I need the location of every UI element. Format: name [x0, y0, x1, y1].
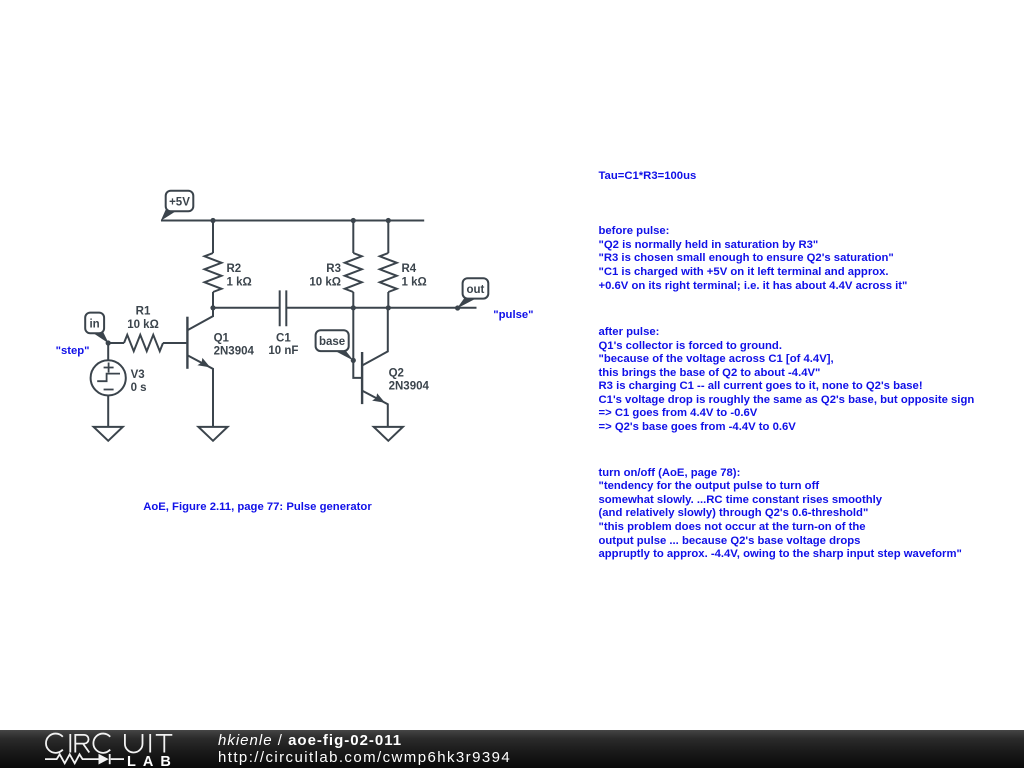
wire R2 bottom lead to collector node — [212, 292, 214, 308]
svg-text:Q1: Q1 — [214, 332, 230, 344]
svg-text:Q2: Q2 — [389, 367, 404, 379]
caption — [143, 501, 372, 515]
flag +5V — [161, 191, 194, 221]
node name "pulse" — [493, 309, 533, 323]
svg-text:R1: R1 — [136, 305, 151, 317]
transistor Q2 2N3904 — [362, 308, 429, 427]
svg-text:V3: V3 — [131, 369, 145, 381]
node name "step" — [56, 345, 90, 359]
junction dot R2 top — [210, 218, 215, 223]
resistor R4 1k — [380, 253, 397, 292]
svg-text:0 s: 0 s — [131, 382, 147, 394]
wire collector node row left of C1 — [213, 307, 280, 309]
wire R3 top lead — [352, 221, 354, 254]
wire R2 top lead — [212, 221, 214, 254]
svg-text:+5V: +5V — [169, 197, 190, 209]
wire in node down to V3 — [107, 343, 109, 361]
bottom bar — [0, 730, 1024, 768]
svg-text:R2: R2 — [227, 263, 242, 275]
junction dot R3 bottom — [351, 305, 356, 310]
svg-text:1 kΩ: 1 kΩ — [227, 277, 252, 289]
voltage source V3 step — [91, 360, 147, 395]
svg-text:in: in — [89, 319, 99, 331]
capacitor C1 10nF — [280, 290, 287, 326]
junction dot base node — [351, 358, 356, 363]
wire V3 bottom to ground — [107, 395, 109, 427]
junction dot in node — [106, 340, 111, 345]
wire R3 bottom lead down to Q2 base — [353, 292, 361, 378]
annotation turn on/off — [599, 467, 962, 562]
logo resistor-diode doodle — [45, 754, 124, 764]
junction dot R4 top — [386, 218, 391, 223]
ground under Q1 emitter — [198, 427, 227, 441]
logo CIRCUIT letters — [46, 733, 172, 752]
resistor R2 1k — [205, 253, 222, 292]
bar text line 2 — [218, 749, 511, 766]
transistor Q1 2N3904 — [187, 308, 254, 427]
wire R4 top lead — [387, 221, 389, 254]
annotation Tau — [599, 170, 697, 184]
svg-text:2N3904: 2N3904 — [214, 345, 255, 357]
wire R4 bottom lead — [387, 292, 389, 308]
svg-text:10 nF: 10 nF — [268, 345, 298, 357]
flag out — [457, 278, 488, 308]
wire in node to R1 — [108, 342, 124, 344]
flag base — [316, 330, 354, 361]
junction dot out node — [455, 305, 460, 310]
resistor R3 10k — [345, 253, 362, 292]
svg-text:base: base — [319, 336, 345, 348]
svg-text:R4: R4 — [402, 263, 417, 275]
svg-text:out: out — [466, 284, 484, 296]
wire top +5V rail — [161, 220, 424, 222]
junction dot collector node — [210, 305, 215, 310]
svg-text:C1: C1 — [276, 332, 291, 344]
ground under V3 — [94, 427, 123, 441]
flag in — [85, 313, 109, 344]
junction dot R3 top — [351, 218, 356, 223]
svg-text:10 kΩ: 10 kΩ — [309, 277, 341, 289]
bar text line 1 — [218, 732, 402, 749]
svg-text:R3: R3 — [326, 263, 341, 275]
resistor R1 10k horizontal — [124, 335, 163, 351]
ground under Q2 emitter — [374, 427, 403, 441]
svg-text:LAB: LAB — [127, 753, 178, 768]
wire R1 to Q1 base — [163, 342, 186, 344]
annotation before pulse — [599, 225, 908, 293]
svg-text:2N3904: 2N3904 — [389, 380, 430, 392]
annotation after pulse — [599, 326, 975, 434]
junction dot R4 bottom — [386, 305, 391, 310]
wire node row right of C1 to out — [286, 307, 476, 309]
svg-text:1 kΩ: 1 kΩ — [402, 277, 427, 289]
svg-text:10 kΩ: 10 kΩ — [127, 319, 159, 331]
